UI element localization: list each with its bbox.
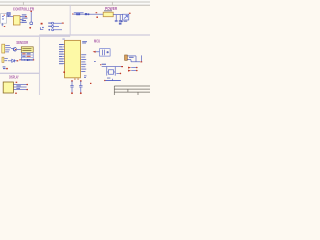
- vertical wire node A: [30, 12, 32, 23]
- capacitor C6 plates: [119, 21, 122, 22]
- buzzer LS1 (tan body) with wiring loop: [125, 55, 143, 62]
- net label sensor bottom: [3, 66, 8, 69]
- room boundary CONTROLLER bottom (horizontal): [0, 35, 70, 37]
- U1 right pin net labels: [81, 54, 86, 72]
- net label text above rail: [74, 11, 84, 14]
- pin marker top-right of J3: [129, 13, 131, 14]
- pin name labels of T1: [22, 14, 28, 22]
- wire J1 to T1: [7, 16, 14, 18]
- diode D2: [12, 59, 18, 62]
- pin dot bottom of LCD1: [15, 92, 17, 94]
- pin marker top-right of LCD1: [16, 82, 18, 83]
- net label below J3: [124, 21, 128, 22]
- capacitor C4 at bottom of node A: [30, 22, 33, 24]
- regulator U2 (yellow body): [103, 12, 113, 17]
- wires from LCD1 pins: [13, 85, 26, 90]
- red pin tip on T1 output: [25, 16, 27, 17]
- pin marker below rail: [96, 17, 98, 18]
- U2 designator text: [104, 10, 112, 11]
- MCU U1 (big yellow IC body): [65, 40, 81, 77]
- net flag row 1: [48, 22, 64, 24]
- ground label below caps: [119, 23, 122, 25]
- capacitor C5 plates: [115, 21, 118, 22]
- fuse F1 on rail: [77, 13, 80, 15]
- power port dot under controller: [29, 27, 31, 29]
- transformer T1 (yellow body): [13, 16, 20, 25]
- wire rail right of U2: [113, 15, 122, 21]
- title block: [114, 86, 150, 95]
- resistor R2 (small yellow body): [2, 57, 8, 62]
- decoupling capacitor C1 below U1: [70, 80, 73, 94]
- svg-text:SENSOR: SENSOR: [16, 40, 29, 45]
- net label speck right of U1: [94, 61, 96, 62]
- connector J1 (controller input, white body): [1, 14, 7, 24]
- inductor L1 label above J1: [7, 12, 10, 16]
- transistor Q1: [13, 47, 17, 51]
- wire U3 to Q1: [11, 47, 13, 49]
- net flag row 2: [48, 25, 59, 27]
- decoupling capacitor C2 below U1: [79, 80, 82, 94]
- red terminal mark right of controller: [41, 23, 43, 25]
- diode D1 on rail: [85, 13, 87, 15]
- net stub below Y2: [116, 73, 121, 75]
- wire R2 to D2: [8, 60, 11, 62]
- POWER input pin marker: [72, 14, 73, 15]
- pin marker on rail: [96, 12, 98, 13]
- connector J3 power output box: [123, 14, 129, 20]
- U1 designator labels top-right: [82, 41, 87, 42]
- wire bus below J2: [19, 59, 34, 61]
- display module LCD1 (yellow body): [3, 82, 13, 93]
- pin marker top of node A: [30, 11, 32, 12]
- U1 left pins: [63, 45, 65, 64]
- net labels on LCD1 wires: [16, 84, 20, 87]
- wire above title block: [104, 78, 121, 82]
- off-sheet arrow row 2: [128, 70, 138, 72]
- ground below J1: [1, 23, 3, 26]
- pin number 1 marks below U1: [74, 79, 75, 80]
- pin labels of U3: [5, 45, 11, 52]
- net flag row 3: [48, 29, 62, 31]
- svg-text:MCU: MCU: [94, 38, 100, 43]
- red pin speck below U1 right: [90, 83, 91, 84]
- header J2 (yellow body): [21, 47, 33, 53]
- svg-text:DISPLAY: DISPLAY: [9, 74, 19, 79]
- pin table of J2: [21, 53, 33, 61]
- pin end dot 1: [26, 84, 28, 86]
- pin end dot 2: [26, 89, 28, 91]
- room boundary MCU top (horizontal): [39, 34, 150, 36]
- wire Q1 to J2: [17, 48, 21, 50]
- red pin marker bottom-left of U1: [63, 71, 65, 73]
- U1 label above body: [62, 38, 64, 41]
- crystal oscillator Y1 (boxed, right of MCU): [93, 49, 111, 56]
- room boundary SENSOR/DISPLAY (horizontal): [0, 72, 39, 74]
- pin 1 marker of ground: [4, 25, 5, 28]
- sensor U3 (tall yellow body): [2, 44, 5, 53]
- pin number text right of U1 bottom: [84, 74, 87, 77]
- junction dot on rail: [88, 13, 90, 15]
- pins right of T1: [20, 17, 26, 23]
- wire power rail left: [73, 13, 103, 15]
- svg-text:CONTROLLER: CONTROLLER: [13, 7, 35, 12]
- U1 left pin name labels: [59, 44, 63, 64]
- emitter arrow of Q1: [15, 49, 17, 51]
- room boundary left column/MCU (vertical): [39, 35, 41, 95]
- net stub near divider: [40, 27, 43, 29]
- room boundary CONTROLLER/POWER (vertical): [69, 5, 71, 35]
- off-sheet arrow row 1: [128, 67, 138, 69]
- junction dot bottom-left of J3: [121, 20, 123, 22]
- crystal Y2 with wire rail: [100, 64, 123, 76]
